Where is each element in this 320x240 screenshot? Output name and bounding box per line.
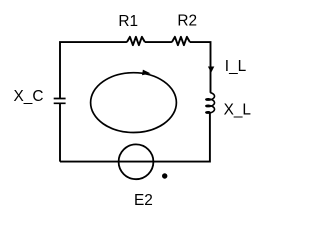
mesh arrow head [142,70,151,76]
current arrow I_L [208,67,214,73]
mesh current ellipse [91,73,177,133]
svg-text:R2: R2 [177,12,197,29]
source E2 circle [119,144,154,179]
svg-text:R1: R1 [118,13,138,30]
svg-text:E2: E2 [134,192,153,209]
inductor X_L coil [206,93,215,114]
svg-text:I_L: I_L [225,58,247,75]
capacitor X_C plates [54,99,66,104]
wire: left side + top-left segment [60,42,127,162]
wire between R1 and R2 [145,41,172,43]
phase dot [162,173,167,178]
wire: below coil + bottom side [60,112,210,161]
svg-text:X_L: X_L [224,101,252,118]
resistor R2 [172,37,190,45]
svg-text:X_C: X_C [14,88,44,105]
resistor R1 [127,37,145,45]
wire: top-right segment + right side down to coil [190,42,211,93]
